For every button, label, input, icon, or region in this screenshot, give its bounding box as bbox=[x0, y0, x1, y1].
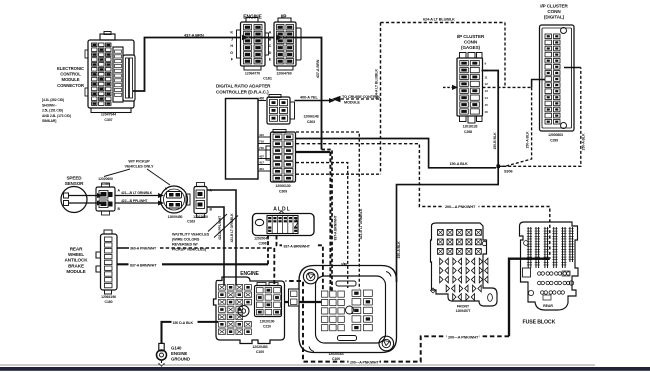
svg-text:412: 412 bbox=[259, 133, 264, 137]
svg-text:13: 13 bbox=[485, 89, 489, 93]
svg-text:12000803: 12000803 bbox=[548, 133, 563, 137]
svg-text:MODULE: MODULE bbox=[66, 269, 85, 274]
engine bulkhead connector C100 bbox=[214, 271, 285, 344]
wire from pin A down to engine bulkhead bbox=[207, 190, 236, 286]
connector C309 12066130 bbox=[258, 130, 296, 194]
svg-text:437: 437 bbox=[259, 154, 264, 158]
svg-text:12047944: 12047944 bbox=[101, 113, 116, 117]
svg-text:CONTROL: CONTROL bbox=[60, 72, 81, 77]
ECM connector C307 bbox=[85, 32, 135, 113]
label 200-A PNK/WHT bottom rail bbox=[349, 359, 380, 364]
svg-text:437-A BRN: 437-A BRN bbox=[316, 59, 320, 78]
wire dashed bus y174 bbox=[296, 173, 381, 175]
wire up into ALDL bbox=[267, 236, 269, 264]
svg-text:S306: S306 bbox=[504, 170, 512, 174]
svg-text:W/UTILITY VEHICLES: W/UTILITY VEHICLES bbox=[172, 233, 210, 237]
connector C163 round bbox=[161, 186, 196, 224]
svg-text:16: 16 bbox=[485, 110, 489, 114]
fuse block front view bbox=[431, 223, 498, 313]
svg-text:150-A BLK: 150-A BLK bbox=[450, 162, 469, 166]
svg-text:K: K bbox=[230, 31, 233, 35]
wire 437-A BRN from ECM bbox=[133, 38, 241, 92]
svg-text:FUSE BLOCK: FUSE BLOCK bbox=[523, 320, 556, 326]
bottom black bar bbox=[0, 367, 650, 371]
DRAC module box bbox=[226, 99, 259, 180]
ECM text label bbox=[42, 66, 116, 123]
wire 150-A BLK S306 down-left into I/P bulkhead bbox=[397, 166, 499, 282]
svg-text:437-A BRN: 437-A BRN bbox=[184, 32, 204, 37]
svg-text:SPEED: SPEED bbox=[66, 176, 82, 181]
svg-text:12064196: 12064196 bbox=[101, 295, 116, 299]
svg-text:150 D-A BLK: 150 D-A BLK bbox=[173, 321, 194, 325]
wire 150-A BLK dash from digital down to S306 bbox=[498, 87, 531, 166]
svg-text:ENGINE: ENGINE bbox=[240, 271, 259, 277]
svg-text:12064769: 12064769 bbox=[276, 72, 291, 76]
svg-text:730: 730 bbox=[259, 146, 264, 150]
svg-text:REAR: REAR bbox=[70, 247, 83, 252]
svg-text:(DIGITAL): (DIGITAL) bbox=[544, 15, 565, 20]
svg-text:150-B BLK: 150-B BLK bbox=[493, 132, 497, 150]
svg-text:12: 12 bbox=[485, 82, 489, 86]
wire 624 vertical bbox=[380, 23, 382, 175]
wire 624-A LT BLU/BLK dashed top rail bbox=[381, 22, 506, 24]
svg-text:C299: C299 bbox=[550, 139, 558, 143]
svg-text:2.5L (151 CID): 2.5L (151 CID) bbox=[42, 109, 63, 113]
svg-text:SENSOR: SENSOR bbox=[65, 181, 85, 186]
wire 150 ground bbox=[162, 322, 219, 344]
svg-text:837-A BRN/WHT: 837-A BRN/WHT bbox=[334, 215, 338, 241]
wire 360-A PNK/WHT dashed bbox=[117, 247, 129, 249]
svg-text:12020100: 12020100 bbox=[260, 320, 275, 324]
svg-text:837-A BRN/WHT: 837-A BRN/WHT bbox=[284, 244, 311, 248]
wire to cruise control bbox=[341, 98, 381, 100]
svg-text:421—B LT GRN/BLK: 421—B LT GRN/BLK bbox=[121, 191, 153, 195]
svg-text:W/T PICKUP: W/T PICKUP bbox=[128, 160, 150, 164]
svg-text:ELECTRONIC: ELECTRONIC bbox=[57, 66, 84, 71]
svg-text:400-A YEL: 400-A YEL bbox=[300, 96, 318, 100]
svg-text:C100: C100 bbox=[332, 357, 340, 361]
connector C164 bbox=[96, 177, 121, 215]
svg-text:TO CRUISE CONTROL: TO CRUISE CONTROL bbox=[342, 95, 382, 99]
svg-text:14: 14 bbox=[485, 96, 489, 100]
svg-text:G140: G140 bbox=[171, 346, 182, 351]
wire from pin B down to engine bulkhead bbox=[207, 207, 224, 286]
svg-text:150-A BLK: 150-A BLK bbox=[397, 241, 401, 259]
connector C303 12066148 bbox=[258, 95, 319, 125]
svg-text:C160: C160 bbox=[105, 300, 113, 304]
wire between ENGINE and I/P connectors bbox=[265, 37, 274, 39]
svg-text:I/P CLUSTER: I/P CLUSTER bbox=[540, 4, 568, 9]
svg-text:12066130: 12066130 bbox=[275, 184, 290, 188]
svg-text:12016133: 12016133 bbox=[463, 125, 478, 129]
wire 150-A BLK solid bus bbox=[296, 139, 496, 168]
connector I/P cluster gages C298 bbox=[457, 34, 488, 134]
svg-text:SHOWN -: SHOWN - bbox=[42, 103, 56, 107]
arrow into ENGINE connector bbox=[242, 35, 249, 40]
svg-text:GROUND: GROUND bbox=[171, 357, 190, 362]
svg-text:200—A PNK/WHT: 200—A PNK/WHT bbox=[350, 361, 379, 365]
label 200-A PNK/WHT bbox=[444, 204, 479, 210]
bottom border line bbox=[0, 364, 595, 366]
svg-text:REVERSED W/: REVERSED W/ bbox=[172, 243, 199, 247]
svg-text:J: J bbox=[231, 37, 233, 41]
svg-text:12020600: 12020600 bbox=[98, 177, 113, 181]
svg-text:MODULE: MODULE bbox=[344, 100, 360, 104]
engine sub connector 12020100 bbox=[255, 283, 282, 329]
svg-text:150-A BLK: 150-A BLK bbox=[526, 131, 530, 149]
wire 422-B PPL/WHT bbox=[115, 202, 160, 204]
svg-text:C307: C307 bbox=[104, 118, 112, 122]
wire engine to I/P left pins bbox=[285, 301, 322, 303]
svg-text:11: 11 bbox=[485, 75, 488, 79]
wire thick bus to I/P bbox=[296, 151, 330, 153]
svg-text:CONN: CONN bbox=[464, 40, 478, 45]
svg-text:CONN: CONN bbox=[547, 9, 561, 14]
svg-text:BRAKE: BRAKE bbox=[68, 263, 84, 268]
I/P bulkhead connector C100 bbox=[299, 262, 397, 361]
svg-text:WHEEL: WHEEL bbox=[68, 252, 84, 257]
svg-text:FRONT: FRONT bbox=[457, 305, 470, 309]
svg-text:837-A BRN/WHT: 837-A BRN/WHT bbox=[130, 263, 157, 267]
wire 200-A PNK/WHT lower run bbox=[286, 281, 510, 362]
svg-text:12009450: 12009450 bbox=[168, 215, 183, 219]
svg-text:H: H bbox=[230, 44, 233, 48]
wire 200 thick at fuse block bbox=[509, 259, 550, 337]
svg-text:C309: C309 bbox=[279, 190, 287, 194]
wire 837-A BRN/WHT solid bbox=[117, 263, 268, 265]
ground G140 symbol bbox=[157, 343, 167, 366]
wire 437-A BRN to I/P bulkhead bbox=[296, 38, 322, 150]
wire 837-A BRN/WHT from ALDL to I/P bulkhead bbox=[277, 236, 323, 292]
connector ALDL C308 bbox=[253, 207, 315, 246]
connector I/P cluster digital C299 bbox=[540, 4, 575, 143]
svg-text:12066148: 12066148 bbox=[303, 115, 318, 119]
svg-text:I/P CLUSTER: I/P CLUSTER bbox=[457, 34, 485, 39]
wire 421-B LT GRN/BLK bbox=[115, 195, 160, 197]
connector 12015900 bbox=[193, 183, 212, 220]
svg-text:624-A LT BLU/BLK: 624-A LT BLU/BLK bbox=[423, 18, 455, 22]
svg-text:C298: C298 bbox=[464, 130, 472, 134]
wire link into digital left pin bbox=[532, 80, 545, 88]
svg-text:[4.3L (262 CID): [4.3L (262 CID) bbox=[42, 98, 64, 102]
svg-text:G: G bbox=[230, 51, 233, 55]
svg-text:C163: C163 bbox=[187, 220, 195, 224]
svg-text:400: 400 bbox=[259, 97, 264, 101]
svg-text:ANTILOCK: ANTILOCK bbox=[65, 258, 89, 263]
svg-text:REAR: REAR bbox=[543, 304, 553, 308]
svg-text:(GAGES): (GAGES) bbox=[461, 45, 481, 50]
svg-text:C181: C181 bbox=[263, 77, 272, 81]
svg-text:716: 716 bbox=[259, 139, 264, 143]
svg-text:(WIRE COLORS: (WIRE COLORS bbox=[172, 238, 200, 242]
svg-text:DIGITAL RATIO ADAPTER: DIGITAL RATIO ADAPTER bbox=[216, 84, 271, 89]
rear wheel antilock brake module bbox=[65, 230, 117, 304]
svg-text:401: 401 bbox=[259, 167, 264, 171]
svg-text:12020164: 12020164 bbox=[328, 352, 343, 356]
svg-text:C100: C100 bbox=[256, 350, 264, 354]
wire 150-B BLK solid bbox=[482, 71, 499, 167]
svg-text:15: 15 bbox=[485, 103, 489, 107]
svg-text:421-B LT GRN/BLK: 421-B LT GRN/BLK bbox=[359, 208, 363, 239]
svg-text:AND 2.8L (173 CID): AND 2.8L (173 CID) bbox=[42, 114, 71, 118]
svg-text:12015900: 12015900 bbox=[193, 215, 208, 219]
svg-text:C210: C210 bbox=[263, 324, 271, 328]
svg-text:VEHICLES ONLY: VEHICLES ONLY bbox=[125, 165, 155, 169]
svg-text:422—B PPL/WHT: 422—B PPL/WHT bbox=[121, 199, 148, 203]
connector ENGINE 12064770 bbox=[230, 15, 272, 76]
wire dashed S306 right up to digital right pin bbox=[498, 68, 581, 167]
svg-text:421-B LT GRN/BLK: 421-B LT GRN/BLK bbox=[230, 213, 234, 243]
svg-text:SIMILAR]: SIMILAR] bbox=[42, 119, 56, 123]
svg-text:360-A PNK/WHT: 360-A PNK/WHT bbox=[130, 247, 157, 251]
svg-text:CONTROLLER (D.R.A.C.): CONTROLLER (D.R.A.C.) bbox=[216, 90, 269, 95]
wire 400-A YEL bbox=[295, 100, 331, 102]
svg-text:12020483: 12020483 bbox=[252, 345, 267, 349]
svg-text:ENGINE: ENGINE bbox=[171, 351, 187, 356]
svg-text:CONNECTOR: CONNECTOR bbox=[57, 83, 85, 88]
junction S306 bbox=[496, 165, 500, 169]
svg-text:200—A PNK/WHT: 200—A PNK/WHT bbox=[448, 335, 479, 339]
svg-text:200—A PNK/WHT: 200—A PNK/WHT bbox=[445, 205, 476, 209]
wire 624 branch down x505 bbox=[504, 23, 506, 88]
wire 200 PNK/WHT dashed bus bbox=[296, 144, 550, 259]
svg-text:12094577: 12094577 bbox=[456, 309, 471, 313]
svg-text:C303: C303 bbox=[307, 120, 315, 124]
svg-text:12020043: 12020043 bbox=[254, 237, 269, 241]
wire 421 dashed bus bbox=[296, 132, 359, 289]
svg-text:150-A BLK: 150-A BLK bbox=[581, 133, 585, 151]
small connector left of I/P bbox=[289, 289, 300, 306]
wire dashed bus y162 bbox=[296, 163, 348, 288]
connector I/P 12064769 bbox=[263, 15, 301, 81]
fuse block rear view bbox=[520, 222, 579, 310]
svg-text:417: 417 bbox=[259, 160, 264, 164]
svg-text:A L D L: A L D L bbox=[273, 207, 290, 213]
svg-text:C308: C308 bbox=[259, 241, 267, 245]
wire dashed gages right to digital bbox=[483, 86, 532, 88]
speed sensor bbox=[61, 176, 103, 213]
svg-text:MODULE: MODULE bbox=[61, 77, 79, 82]
wire dashed arrow into gages left pin bbox=[443, 86, 453, 88]
wire drop into engine sub connector bbox=[273, 248, 275, 286]
svg-text:12064770: 12064770 bbox=[245, 72, 260, 76]
